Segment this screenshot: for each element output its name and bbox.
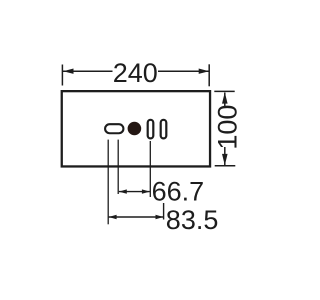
extension line from slot left center [107,140,109,225]
svg-text:240: 240 [113,58,158,88]
wiring hole left (vertical oval) [148,120,154,139]
height dimension up arrowhead [222,92,228,103]
svg-text:100: 100 [212,105,242,150]
height dimension bottom tick [215,165,236,167]
width dimension line left segment [63,70,113,72]
height dimension down arrowhead [222,154,228,165]
offset dimension 83.5 right tick [163,203,165,220]
slotted mounting hole (horizontal stadium) [105,124,123,133]
offset dimension 83.5 left arrowhead [109,215,117,219]
width dimension right tick [208,64,210,86]
wiring hole right (vertical oval) [161,120,167,139]
offset dimension 66.7 right arrowhead [142,189,150,193]
width dimension right arrowhead [199,69,209,74]
offset dimension 66.7 line [119,191,150,193]
height dimension line top segment [224,93,226,107]
svg-text:66.7: 66.7 [152,176,205,206]
width dimension left arrowhead [63,69,73,74]
offset dimension 66.7 left arrowhead [119,189,127,193]
knockout (filled circle) [128,122,142,136]
offset dimension 83.5 right arrowhead [156,215,164,219]
extension line from slot right center [117,140,119,194]
offset dimension 83.5 line [109,216,164,218]
extension line from left oval center [149,141,151,197]
svg-text:83.5: 83.5 [166,205,219,235]
width dimension left tick [61,65,63,86]
width dimension line right segment [158,70,209,72]
fixture body outline [62,91,210,166]
height dimension top tick [214,90,234,92]
height dimension line bottom segment [224,147,226,165]
